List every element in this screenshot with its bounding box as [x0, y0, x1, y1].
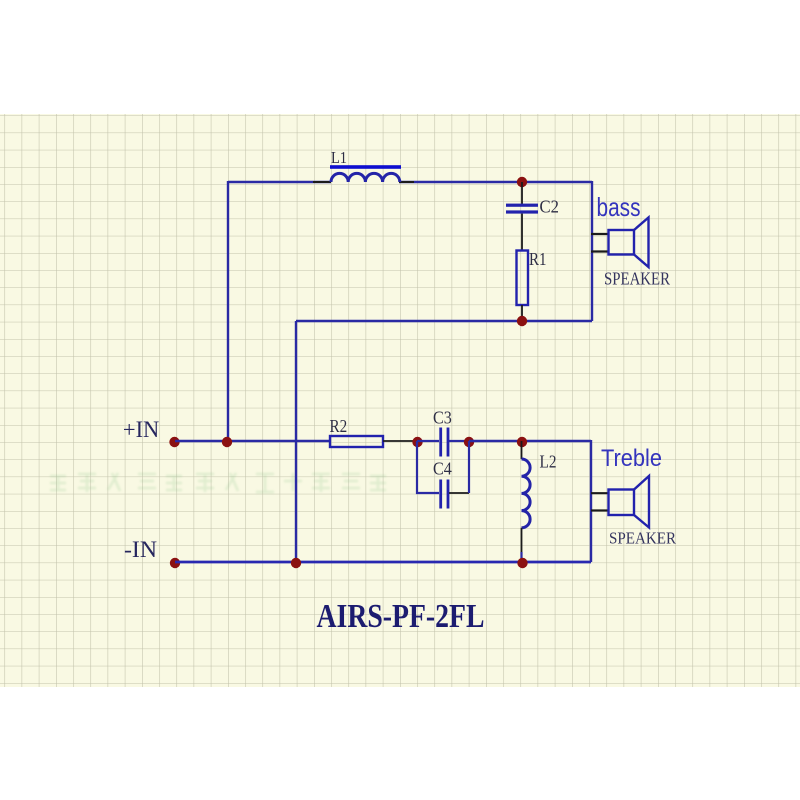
wire: C4 branch left drop [417, 441, 439, 493]
node: C3/C4 left junction [412, 437, 422, 447]
wire: treble top rail to corner [469, 440, 591, 442]
wire: +IN rail to R2 [175, 440, 330, 442]
svg-text:AIRS-PF-2FL: AIRS-PF-2FL [317, 598, 485, 635]
node: -IN junction with mid vertical [291, 558, 301, 568]
wire: mid vertical from bass bottom rail to -IN rail [295, 321, 297, 562]
svg-text:C3: C3 [433, 408, 452, 428]
wire: treble right vertical [590, 440, 592, 562]
svg-text:R1: R1 [529, 249, 547, 269]
svg-text:C2: C2 [540, 197, 559, 217]
capacitor C2 [506, 204, 538, 214]
resistor R2 [330, 436, 383, 447]
wire: C3 right plate to right junction [449, 440, 469, 442]
wire: top rail left segment [228, 181, 331, 183]
svg-text:-IN: -IN [124, 537, 157, 563]
node: top junction [517, 177, 527, 187]
wire: top rail right segment [399, 181, 592, 183]
watermark [50, 473, 386, 492]
svg-text:bass: bass [597, 192, 641, 222]
capacitor C4 [439, 480, 449, 509]
svg-text:L1: L1 [331, 148, 347, 167]
wire: dark stubs flanking L1 [313, 181, 414, 183]
inductor L1 bar [330, 165, 401, 169]
svg-text:+IN: +IN [123, 417, 159, 443]
wire: L2 bottom stub (dark) [521, 528, 523, 552]
svg-text:R2: R2 [330, 416, 348, 436]
wire: bass right vertical [591, 181, 593, 321]
wire: R2 to C3 node (dark) [383, 440, 417, 442]
wire: L2 stub to -IN rail [520, 552, 522, 562]
wire: C4 right return (dark then up) [449, 492, 469, 494]
node: C3/C4 right junction [464, 437, 474, 447]
wire: -IN rail [175, 561, 591, 564]
wire: L2 top stub (dark) [521, 441, 523, 459]
wire: C2 to R1 (dark stub) [521, 214, 523, 251]
svg-text:C4: C4 [433, 459, 452, 479]
wire: bass bottom rail [296, 320, 592, 322]
inductor L1 coil [331, 173, 400, 182]
speaker (bass): box and horn [609, 218, 649, 268]
inductor L2 coil [522, 459, 531, 528]
wire: left vertical from top rail to +IN rail [227, 181, 229, 441]
wire: bass speaker terminal stubs [591, 234, 609, 252]
wire: junction to C3 left plate [417, 440, 439, 442]
node: +IN left terminal [169, 437, 179, 447]
wire: treble speaker terminal stubs [591, 493, 609, 510]
svg-text:SPEAKER: SPEAKER [604, 269, 670, 289]
graph paper band [0, 114, 800, 687]
capacitor C3 [439, 428, 449, 457]
svg-text:Treble: Treble [601, 445, 662, 472]
speaker (treble): box and horn [609, 476, 650, 528]
wire: junction to C2 (dark stub) [521, 182, 523, 204]
node: -IN junction with L2 [517, 558, 527, 568]
wire: C4 right riser [468, 441, 470, 493]
resistor R1 [517, 251, 529, 306]
node: +IN junction with left vertical [222, 437, 232, 447]
wire: R1 to bottom junction (dark stub) [521, 305, 523, 321]
node: -IN left terminal [170, 558, 180, 568]
svg-text:L2: L2 [540, 452, 557, 472]
svg-text:SPEAKER: SPEAKER [609, 529, 677, 548]
node: bass bottom junction [517, 316, 527, 326]
node: L2 top junction [517, 437, 527, 447]
